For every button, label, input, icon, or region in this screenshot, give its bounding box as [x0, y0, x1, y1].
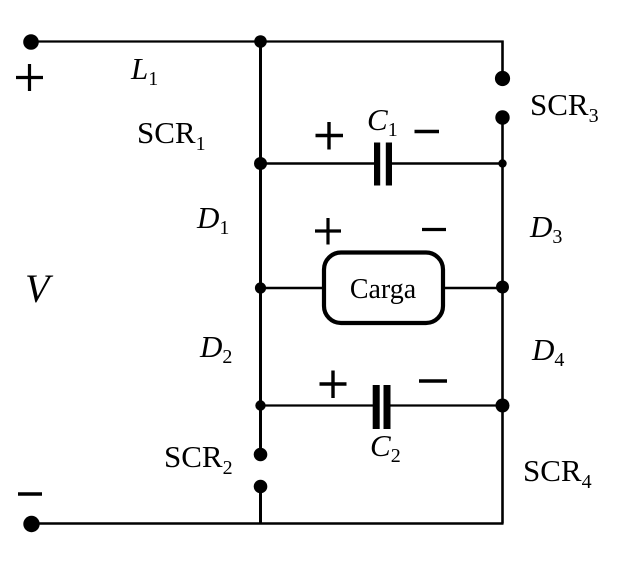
svg-text:C2: C2 [370, 428, 401, 467]
svg-text:D1: D1 [196, 200, 229, 239]
minus sign of C2 [419, 379, 447, 382]
wire C1 right segment [392, 162, 503, 164]
SCR2 lower contact dot [254, 480, 268, 494]
svg-text:C1: C1 [367, 102, 398, 141]
plus sign above load [315, 218, 341, 245]
minus sign of source V [18, 492, 42, 495]
wire C2 right segment [391, 404, 503, 406]
svg-text:D3: D3 [529, 209, 562, 248]
svg-text:V: V [25, 266, 54, 311]
wire right corner drop [501, 41, 504, 72]
wire left vertical main [259, 42, 262, 449]
node left C1 junction [254, 157, 267, 170]
wire load left segment [261, 287, 326, 289]
plus sign of C1 [316, 122, 344, 150]
wire left bottom segment [259, 487, 262, 524]
svg-text:SCR3: SCR3 [530, 87, 599, 127]
wire bottom horizontal [32, 522, 504, 525]
svg-text:L1: L1 [130, 51, 158, 90]
svg-text:SCR4: SCR4 [523, 453, 592, 493]
node right load junction [496, 281, 509, 294]
wire right vertical main [501, 164, 504, 524]
terminal node V- [23, 516, 39, 532]
wire load right segment [442, 287, 503, 289]
svg-text:D4: D4 [531, 332, 564, 371]
plus sign of source V [16, 64, 43, 91]
node left load junction [255, 282, 266, 293]
node A top junction [254, 35, 267, 48]
wire C1 left segment [261, 162, 375, 164]
svg-text:Carga: Carga [350, 274, 417, 305]
svg-text:SCR2: SCR2 [164, 439, 233, 479]
wire C2 left segment [261, 404, 374, 406]
capacitor C1 plates [374, 143, 392, 186]
capacitor C2 plates [373, 385, 391, 429]
wire top horizontal from V+ to right corner [31, 40, 504, 42]
SCR2 upper contact dot [254, 448, 268, 462]
wire right segment below SCR3 [501, 124, 504, 164]
svg-text:SCR1: SCR1 [137, 115, 206, 155]
node right C1 junction [498, 159, 506, 167]
minus sign above load [422, 228, 446, 231]
plus sign of C2 [320, 371, 347, 399]
load box Carga [324, 253, 443, 324]
node left C2 junction [255, 400, 265, 410]
svg-text:D2: D2 [199, 329, 232, 368]
node right C2 junction [496, 399, 510, 413]
terminal node V+ [23, 34, 39, 50]
minus sign of C1 [415, 130, 440, 133]
SCR3 upper contact dot [495, 71, 510, 86]
SCR3 lower contact dot [495, 110, 509, 124]
